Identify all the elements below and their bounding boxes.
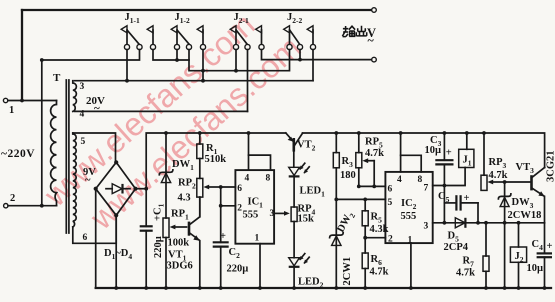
svg-text:C2: C2 [229, 247, 241, 260]
label 6 [83, 233, 88, 243]
svg-text:J1: J1 [463, 155, 472, 168]
svg-text:4.7k: 4.7k [489, 170, 508, 181]
resistor R1 [197, 131, 203, 178]
potentiometer RP5 [356, 131, 376, 188]
label DW2 2CW1 [335, 210, 357, 286]
label C5 [438, 191, 450, 204]
resistor R3 [333, 131, 339, 235]
transformer T label [53, 72, 61, 84]
wire segment J1-1c to J1-2 [153, 50, 189, 62]
terminal 2 [4, 193, 16, 208]
label DW1 [172, 159, 194, 172]
svg-text:D1~D4: D1~D4 [104, 248, 132, 261]
terminal 1 [3, 98, 14, 116]
svg-text:T: T [53, 72, 61, 84]
resistor R5 [362, 199, 368, 253]
svg-text:7: 7 [424, 184, 429, 194]
label 4 [80, 110, 85, 120]
label C4 10u [527, 239, 544, 274]
relay coil J2 [510, 223, 526, 290]
label C1 [153, 203, 166, 258]
svg-text:510k: 510k [205, 154, 227, 165]
svg-text:220µ: 220µ [227, 264, 249, 275]
label output V (shu chu drawn as strokes) [342, 26, 376, 47]
svg-text:100k: 100k [168, 238, 190, 249]
svg-text:1: 1 [9, 105, 14, 116]
svg-text:3CG21: 3CG21 [546, 151, 555, 183]
svg-text:~220V: ~220V [1, 148, 35, 160]
svg-text:R3: R3 [342, 156, 354, 169]
svg-text:5: 5 [388, 198, 393, 208]
potentiometer RP4 [291, 207, 297, 258]
label 9V~ [83, 167, 96, 186]
svg-text:4.7k: 4.7k [456, 268, 475, 279]
wire bridge right vertex to DC plus [136, 187, 149, 191]
zener DW3 [498, 182, 511, 290]
relay contact group J2-1 [230, 12, 264, 50]
transformer secondary 9V winding [73, 133, 76, 227]
wire IC2 pin5 line [336, 198, 385, 202]
label VT3 3CG21 [516, 151, 555, 183]
svg-text:2: 2 [10, 193, 15, 204]
wire IC2 pin2 line [365, 237, 385, 239]
label C3 10u [425, 135, 442, 156]
wire bus B 220V side to J1-1 [40, 50, 140, 62]
output terminal 2 [372, 57, 377, 62]
svg-text:4.3: 4.3 [178, 193, 191, 204]
svg-text:4: 4 [245, 174, 250, 184]
capacitor C5 [444, 193, 480, 225]
wire IC2 pin3 line [433, 221, 545, 225]
svg-text:2CP4: 2CP4 [444, 242, 469, 253]
svg-text:IC2: IC2 [401, 198, 417, 211]
label 3 [80, 82, 85, 92]
svg-text:5: 5 [81, 137, 86, 147]
svg-text:+: + [547, 241, 553, 252]
label R7 4.7k [456, 256, 475, 279]
transformer secondary 20V winding [73, 81, 77, 112]
wire bridge bottom to bus [114, 215, 118, 290]
LED2 [289, 254, 310, 290]
svg-text:J1-2: J1-2 [175, 12, 190, 25]
svg-text:6: 6 [237, 184, 242, 194]
label C2 220u [227, 247, 249, 275]
svg-text:~: ~ [94, 103, 100, 115]
wire drop J1-2 right to tap3 [202, 50, 204, 81]
resistor R7 [483, 221, 489, 290]
wire terminal 2 to primary bottom [8, 204, 57, 208]
svg-text:2CW18: 2CW18 [508, 210, 542, 221]
svg-text:6: 6 [83, 233, 88, 243]
output terminal 1 [372, 8, 377, 13]
svg-text:+: + [446, 148, 452, 159]
label R6 4.7k [370, 254, 389, 278]
relay contact group J1-2 [171, 12, 205, 50]
watermark [37, 6, 308, 237]
svg-text:15k: 15k [298, 214, 315, 225]
diode D5 [455, 218, 465, 228]
potentiometer RP2 [197, 178, 221, 216]
svg-text:8: 8 [266, 174, 271, 184]
label 20V~ [86, 95, 105, 115]
wire IC2 pin6 line [359, 185, 386, 187]
wire line L3 J1-2 to J2-2 [189, 50, 290, 73]
wire RP2 wiper to IC1 pins 6 and 2 [219, 185, 236, 208]
label RP5 4.7k [365, 137, 384, 160]
capacitor C1 [140, 226, 153, 290]
svg-text:+: + [220, 231, 226, 242]
relay contact group J2-2 [284, 12, 316, 50]
svg-text:VT2: VT2 [297, 140, 316, 153]
relay coil J1 [459, 131, 474, 167]
bridge rectifier D1~D4 [94, 160, 138, 217]
svg-text:R6: R6 [371, 254, 383, 267]
wire DC plus vertical [146, 133, 286, 226]
svg-text:180: 180 [340, 170, 356, 181]
svg-text:3DG6: 3DG6 [167, 261, 193, 272]
label ~220V [1, 148, 35, 160]
wire lead 6 [73, 215, 116, 243]
svg-text:4: 4 [80, 110, 85, 120]
wire IC1 pin3 to RP4 [274, 211, 290, 216]
label RP4 15k [298, 204, 316, 225]
svg-text:DW3: DW3 [512, 197, 534, 210]
label RP1 100k [168, 209, 190, 249]
capacitor C4 [537, 223, 553, 290]
label R5 4.3k [370, 212, 389, 236]
label RP3 4.7k [489, 157, 508, 181]
svg-text:DW2: DW2 [335, 210, 357, 236]
svg-text:4: 4 [397, 175, 402, 185]
svg-text:4.7k: 4.7k [365, 148, 384, 159]
svg-text:4.7k: 4.7k [370, 267, 389, 278]
wire IC2 pin7 line [433, 168, 465, 188]
transistor VT2 [286, 133, 303, 167]
svg-text:+: + [464, 193, 470, 204]
resistor R6 [362, 253, 368, 290]
wire drop J1-2 center [176, 50, 178, 60]
label R3 180 [340, 156, 356, 181]
svg-text:J1-1: J1-1 [125, 12, 140, 25]
transistor VT3 [532, 168, 545, 223]
svg-text:RP1: RP1 [171, 209, 189, 222]
IC2 555 [385, 131, 432, 245]
wire bottom bus [96, 287, 551, 289]
label D5 2CP4 [444, 231, 469, 254]
wire drop J2-2 right to tap3 [312, 50, 314, 81]
svg-text:555: 555 [401, 211, 417, 222]
wire output line [262, 50, 372, 62]
wire tap 4 line [75, 110, 248, 112]
wire top rail to output 1 [22, 9, 371, 11]
wire bridge left vertex down to bus [95, 189, 97, 288]
label VT1 3DG6 [167, 250, 193, 272]
transformer core [66, 80, 69, 233]
svg-text:10µ: 10µ [527, 263, 544, 274]
svg-text:C4: C4 [532, 239, 544, 252]
svg-text:RP3: RP3 [489, 157, 507, 170]
potentiometer RP1 [163, 218, 187, 290]
label 5 [81, 137, 86, 147]
wire drop J1-1 left to tap3 [126, 50, 128, 81]
svg-text:3: 3 [424, 222, 429, 232]
svg-text:RP2: RP2 [178, 178, 196, 191]
IC1 555 [235, 131, 274, 244]
label LED1 [300, 186, 326, 199]
capacitor C3 [435, 131, 453, 225]
label VT2 [297, 140, 316, 153]
wire drop J2-2 mid [299, 50, 301, 60]
svg-text:2CW1: 2CW1 [342, 257, 353, 286]
wire IC2 pin1 to bus [409, 243, 413, 290]
potentiometer RP3 [481, 131, 505, 190]
label RP2 4.3 [178, 178, 197, 204]
capacitor C2 [213, 206, 229, 290]
label LED2 [298, 277, 324, 290]
LED1 [289, 163, 310, 207]
svg-text:~: ~ [85, 175, 91, 186]
svg-text:LED1: LED1 [300, 186, 326, 199]
svg-text:IC1: IC1 [248, 197, 264, 210]
wire RP3 wiper to VT3 base [503, 180, 531, 184]
transistor VT1 [189, 197, 202, 290]
svg-text:J2-2: J2-2 [287, 12, 302, 25]
svg-text:~: ~ [368, 33, 375, 47]
zener DW2 [330, 233, 344, 290]
svg-text:1: 1 [255, 234, 260, 244]
wire vertical x42 terminal2 to bus B [41, 60, 43, 206]
zener DW1 [159, 131, 173, 218]
svg-text:R5: R5 [371, 212, 383, 225]
wire terminal 1 to transformer primary [8, 99, 57, 103]
relay contact group J1-1 [121, 12, 155, 50]
wire drop J2-1 left [235, 50, 237, 71]
wire IC1 pin1 to bus [258, 244, 262, 290]
label D1~D4 [104, 248, 132, 261]
svg-text:220µ: 220µ [153, 236, 164, 258]
svg-text:2: 2 [388, 235, 393, 245]
label DW3 2CW18 [508, 197, 542, 221]
wire lead 5 [73, 133, 116, 162]
label R1 510k [205, 143, 227, 165]
svg-text:555: 555 [243, 210, 259, 221]
svg-text:3: 3 [80, 82, 85, 92]
wire drop J2-1 mid to tap4 [247, 50, 249, 112]
top rail right part after VT2 [303, 133, 545, 168]
svg-text:8: 8 [418, 175, 423, 185]
transformer primary winding [51, 101, 57, 206]
wire left vertical from rail to terminal 1 [21, 10, 23, 101]
svg-text:6: 6 [388, 185, 393, 195]
wire tap 3 line [75, 79, 314, 83]
svg-text:VT3: VT3 [516, 162, 535, 175]
svg-text:10µ: 10µ [425, 145, 442, 156]
